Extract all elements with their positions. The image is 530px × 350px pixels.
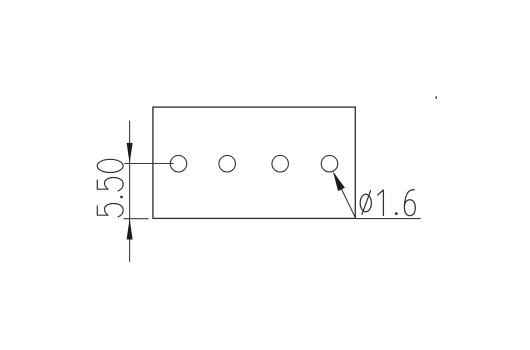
decimal point (120, 196, 123, 199)
extension line at bottom edge (123, 218, 148, 220)
dimension arrow top (points down) (127, 143, 133, 164)
dimension text 5.50 (rotated) (97, 159, 123, 217)
diameter text: 6 (404, 190, 415, 216)
dimension arrow bottom (points up) (127, 219, 133, 240)
extension line at hole centerline (124, 163, 173, 165)
digit 0 (97, 159, 123, 172)
leader line to hole 4 (334, 174, 356, 219)
diameter text: 1 (378, 190, 384, 215)
hole 2 (219, 155, 236, 172)
hole 3 (272, 155, 289, 172)
digit 5 (first) (97, 204, 123, 217)
dimension line (vertical, 5.50) (129, 121, 131, 262)
diameter text: phi symbol (360, 191, 371, 215)
digit 5 (second) (97, 178, 123, 191)
leader arrowhead (333, 171, 345, 191)
hole 1 (170, 155, 187, 172)
leader underline (356, 218, 421, 220)
diameter text: decimal point (395, 212, 398, 215)
stray tick mark (435, 96, 437, 99)
hole 4 (321, 155, 338, 172)
part outline rectangle (153, 107, 355, 218)
